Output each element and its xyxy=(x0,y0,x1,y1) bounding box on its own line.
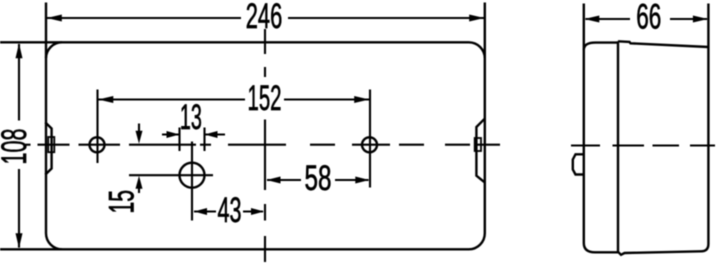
svg-text:66: 66 xyxy=(636,0,661,37)
svg-text:13: 13 xyxy=(180,98,202,137)
svg-text:108: 108 xyxy=(0,129,34,165)
svg-text:43: 43 xyxy=(218,191,242,230)
svg-text:152: 152 xyxy=(248,79,282,118)
svg-text:246: 246 xyxy=(246,0,283,36)
svg-text:58: 58 xyxy=(305,159,332,198)
svg-text:15: 15 xyxy=(103,190,142,214)
